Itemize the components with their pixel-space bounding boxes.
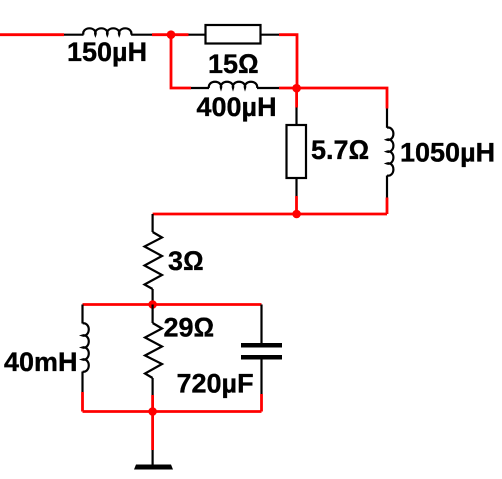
- node: junction dot bottom of 5.7Ω: [292, 210, 301, 219]
- ground: [134, 465, 173, 470]
- wire: left input red segment: [0, 33, 64, 36]
- svg-text:400µH: 400µH: [197, 92, 277, 122]
- value label 400µH: [197, 92, 277, 122]
- resistor 29Ω (zigzag): [145, 323, 162, 378]
- wire: black lead into L 400µH: [191, 87, 209, 89]
- node: junction dot bottom of tank: [148, 407, 157, 416]
- inductor 400µH: [209, 82, 279, 88]
- svg-text:40mH: 40mH: [4, 347, 78, 377]
- wire: red run to 1050µH top corner: [297, 88, 387, 109]
- wire: red upper half of 5.7Ω top lead: [295, 88, 298, 108]
- wire: red top-right corner down to node: [279, 35, 297, 88]
- wire: red top bus of tank y=304.5: [83, 303, 262, 306]
- wire: black lead out of C 720µF: [260, 360, 262, 395]
- svg-text:5.7Ω: 5.7Ω: [311, 135, 369, 165]
- wire: black lead into L 150µH: [64, 34, 84, 36]
- svg-text:15Ω: 15Ω: [208, 49, 259, 79]
- wire: red bottom corner of 40mH branch: [81, 392, 84, 412]
- wire: black lead into L 40mH: [81, 305, 83, 324]
- wire: red drop from node to 400µH branch: [171, 35, 191, 88]
- inductor 40mH: [83, 323, 89, 392]
- node: junction dot top of RLC tank: [148, 300, 157, 309]
- wire: red bottom bus of tank y=411.5: [83, 410, 262, 413]
- capacitor 720µF: [241, 343, 282, 360]
- value label 3Ω: [168, 246, 204, 276]
- wire: red lower half of 5.7Ω bottom lead: [295, 196, 298, 214]
- wire: red horizontal bus y=213.5: [153, 213, 387, 216]
- wire: black ground lead: [152, 450, 154, 465]
- wire: black lead out of R 29Ω: [152, 378, 154, 395]
- value label 1050µH: [400, 138, 495, 168]
- node: junction dot at 15Ω/400µH split: [167, 30, 176, 39]
- wire: red lower half of 29Ω bottom lead: [151, 395, 154, 412]
- wire: red drop to ground: [151, 412, 154, 451]
- wire: black lead into R 29Ω: [152, 305, 154, 324]
- wire: black lead into R 5.7Ω: [295, 108, 297, 126]
- wire: black lead out of R 15Ω: [261, 34, 280, 36]
- value label 150µH: [67, 37, 147, 67]
- wire: black lead into L 1050µH: [386, 109, 388, 128]
- resistor 3Ω (zigzag): [145, 232, 163, 289]
- value label 29Ω: [164, 313, 215, 343]
- wire: black lead into R 3Ω: [152, 214, 154, 232]
- value label 15Ω: [208, 49, 259, 79]
- value label 5.7Ω: [311, 135, 369, 165]
- wire: red bottom corner of capacitor branch: [260, 394, 263, 412]
- inductor 1050µH: [387, 128, 393, 198]
- wire: black lead out of R 3Ω: [152, 289, 154, 305]
- resistor 5.7Ω (box): [287, 125, 307, 178]
- resistor 15Ω (box): [206, 25, 261, 44]
- wire: red bottom corner of 1050µH branch: [386, 198, 389, 215]
- wire: red segment through node to resistor lead: [152, 33, 189, 36]
- value label 40mH: [4, 347, 78, 377]
- svg-text:720µF: 720µF: [177, 368, 254, 398]
- wire: black lead out of R 5.7Ω: [295, 178, 297, 196]
- svg-text:1050µH: 1050µH: [400, 138, 495, 168]
- wire: red lead into middle node: [279, 87, 296, 90]
- node: junction dot top of 5.7Ω: [292, 84, 301, 93]
- wire: black lead into R 15Ω: [189, 34, 206, 36]
- inductor 150µH: [83, 28, 152, 34]
- svg-text:3Ω: 3Ω: [168, 246, 204, 276]
- wire: black lead into C 720µF: [260, 305, 262, 344]
- svg-text:150µH: 150µH: [67, 37, 147, 67]
- value label 720µF: [177, 368, 254, 398]
- svg-text:29Ω: 29Ω: [164, 313, 215, 343]
